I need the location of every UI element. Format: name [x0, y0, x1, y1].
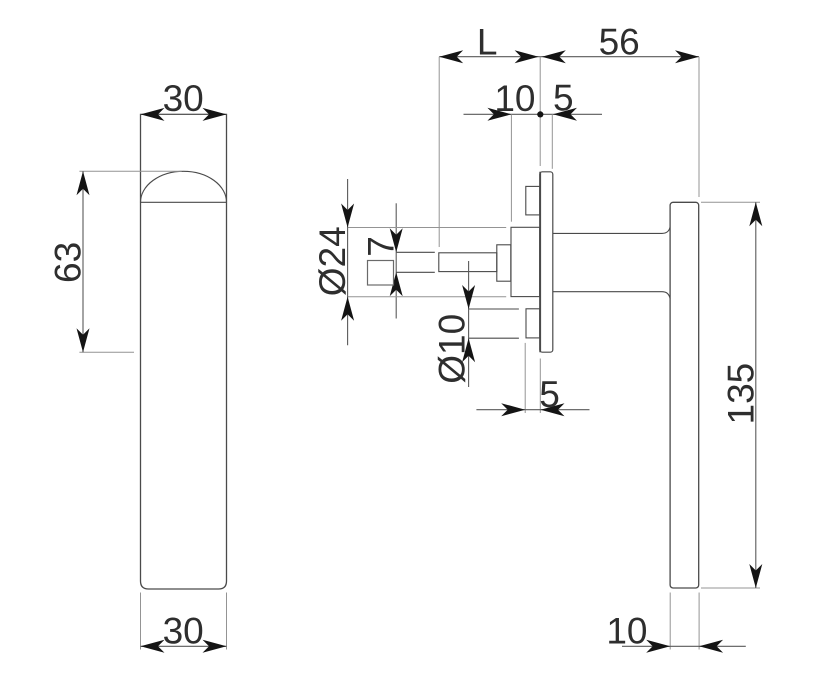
- dimension O24: dim line: [347, 179, 349, 345]
- dimension 10: extension line: [510, 114, 512, 221]
- dimension L: right arrow: [515, 50, 539, 63]
- dimension 135: extension line bottom: [701, 587, 760, 589]
- bottom clip: [526, 309, 540, 338]
- svg-text:Ø10: Ø10: [432, 314, 473, 384]
- dimension 63: extension line bottom: [79, 351, 134, 353]
- dimension 63: dim line: [82, 171, 84, 352]
- dimension 63: extension line top: [79, 170, 181, 172]
- svg-text:Ø24: Ø24: [312, 226, 353, 296]
- dimension O10: bottom arrow: [462, 338, 475, 362]
- spindle collar: [497, 245, 511, 281]
- svg-text:63: 63: [48, 242, 89, 283]
- bearing hub (O24 cylinder): [511, 227, 540, 296]
- dimension square symbol: [368, 261, 394, 286]
- dimension 10 bottom: outside arrow left: [646, 640, 670, 653]
- dimension 63: top arrow: [77, 171, 90, 195]
- dimension 5 bottom: outside arrow right: [541, 403, 565, 416]
- svg-text:30: 30: [163, 611, 204, 652]
- svg-text:7: 7: [361, 236, 402, 257]
- dimension O24: bottom arrow: [341, 297, 354, 321]
- svg-text:5: 5: [553, 77, 574, 118]
- dimension 56: right arrow: [675, 50, 699, 63]
- svg-text:L: L: [477, 22, 498, 63]
- dimension L: left arrow: [439, 50, 463, 63]
- dimension 10 bottom: dim line: [622, 645, 746, 647]
- grip side outline: [670, 202, 699, 588]
- svg-text:10: 10: [606, 611, 647, 652]
- dimension 7: bottom arrow (outside, pointing up): [390, 272, 403, 296]
- grip front outline: [141, 114, 227, 589]
- svg-text:30: 30: [163, 78, 204, 119]
- dimension O24: extension lines: [348, 227, 507, 229]
- dimension 135: dim line: [755, 202, 757, 588]
- dimension 10/5: dim line: [464, 113, 603, 115]
- svg-text:135: 135: [720, 363, 761, 425]
- rosette dome arc behind grip: [141, 171, 227, 202]
- extension line center (rosette face): [539, 57, 541, 166]
- dimension O10: dim line: [468, 261, 470, 387]
- dimension O10: top arrow: [462, 285, 475, 309]
- dimension 7: top arrow (outside, pointing down): [390, 228, 403, 252]
- spindle square bar: [396, 251, 435, 253]
- svg-text:10: 10: [494, 78, 535, 119]
- dimension 5: extension line: [551, 114, 553, 169]
- dimension 30 bottom: right arrow: [203, 640, 227, 653]
- dimension 30 bottom: extension lines: [140, 593, 142, 650]
- extension line L left: [438, 57, 440, 247]
- dimension 5 bottom: extension lines: [524, 343, 526, 413]
- dimension 30 top: left arrow: [141, 108, 165, 121]
- dimension 135: extension line top: [701, 201, 760, 203]
- dimension L and 56: dim line: [439, 56, 699, 58]
- dimension 30 top: line: [141, 113, 227, 115]
- dimension O24: top arrow: [341, 204, 354, 228]
- dimension 30 bottom: dim line: [141, 645, 227, 647]
- dimension 30 top: right arrow: [203, 108, 227, 121]
- dimension 30 bottom: left arrow: [141, 640, 165, 653]
- svg-text:56: 56: [599, 22, 640, 63]
- dimension 10 bottom: extension lines: [669, 593, 671, 650]
- dimension 5: outside arrow right: [553, 108, 577, 121]
- dome chord line: [141, 201, 227, 203]
- dimension 10: outside arrow left: [487, 108, 511, 121]
- dimension 135: top arrow: [749, 202, 762, 226]
- dimension 5 bottom: dim line: [476, 409, 589, 411]
- svg-text:5: 5: [539, 374, 560, 415]
- neck bottom edge with fillet: [553, 292, 670, 299]
- dimension 5 bottom: outside arrow left: [501, 403, 525, 416]
- bottom screw boss O10: [469, 308, 519, 310]
- dimension 63: bottom arrow: [77, 328, 90, 352]
- dimension 56: left arrow: [542, 50, 566, 63]
- rosette plate: [540, 172, 553, 352]
- neck top edge with fillet: [553, 227, 670, 234]
- spindle sleeve: [439, 253, 497, 272]
- dimension 135: bottom arrow: [749, 564, 762, 588]
- dimension 10 bottom: outside arrow right: [699, 640, 723, 653]
- extension line 56 right: [698, 57, 700, 197]
- top clip: [526, 186, 540, 215]
- dimension 7: dim line: [395, 203, 397, 318]
- rosette front face emphasized: [539, 172, 541, 352]
- node dot on centerline: [537, 111, 543, 117]
